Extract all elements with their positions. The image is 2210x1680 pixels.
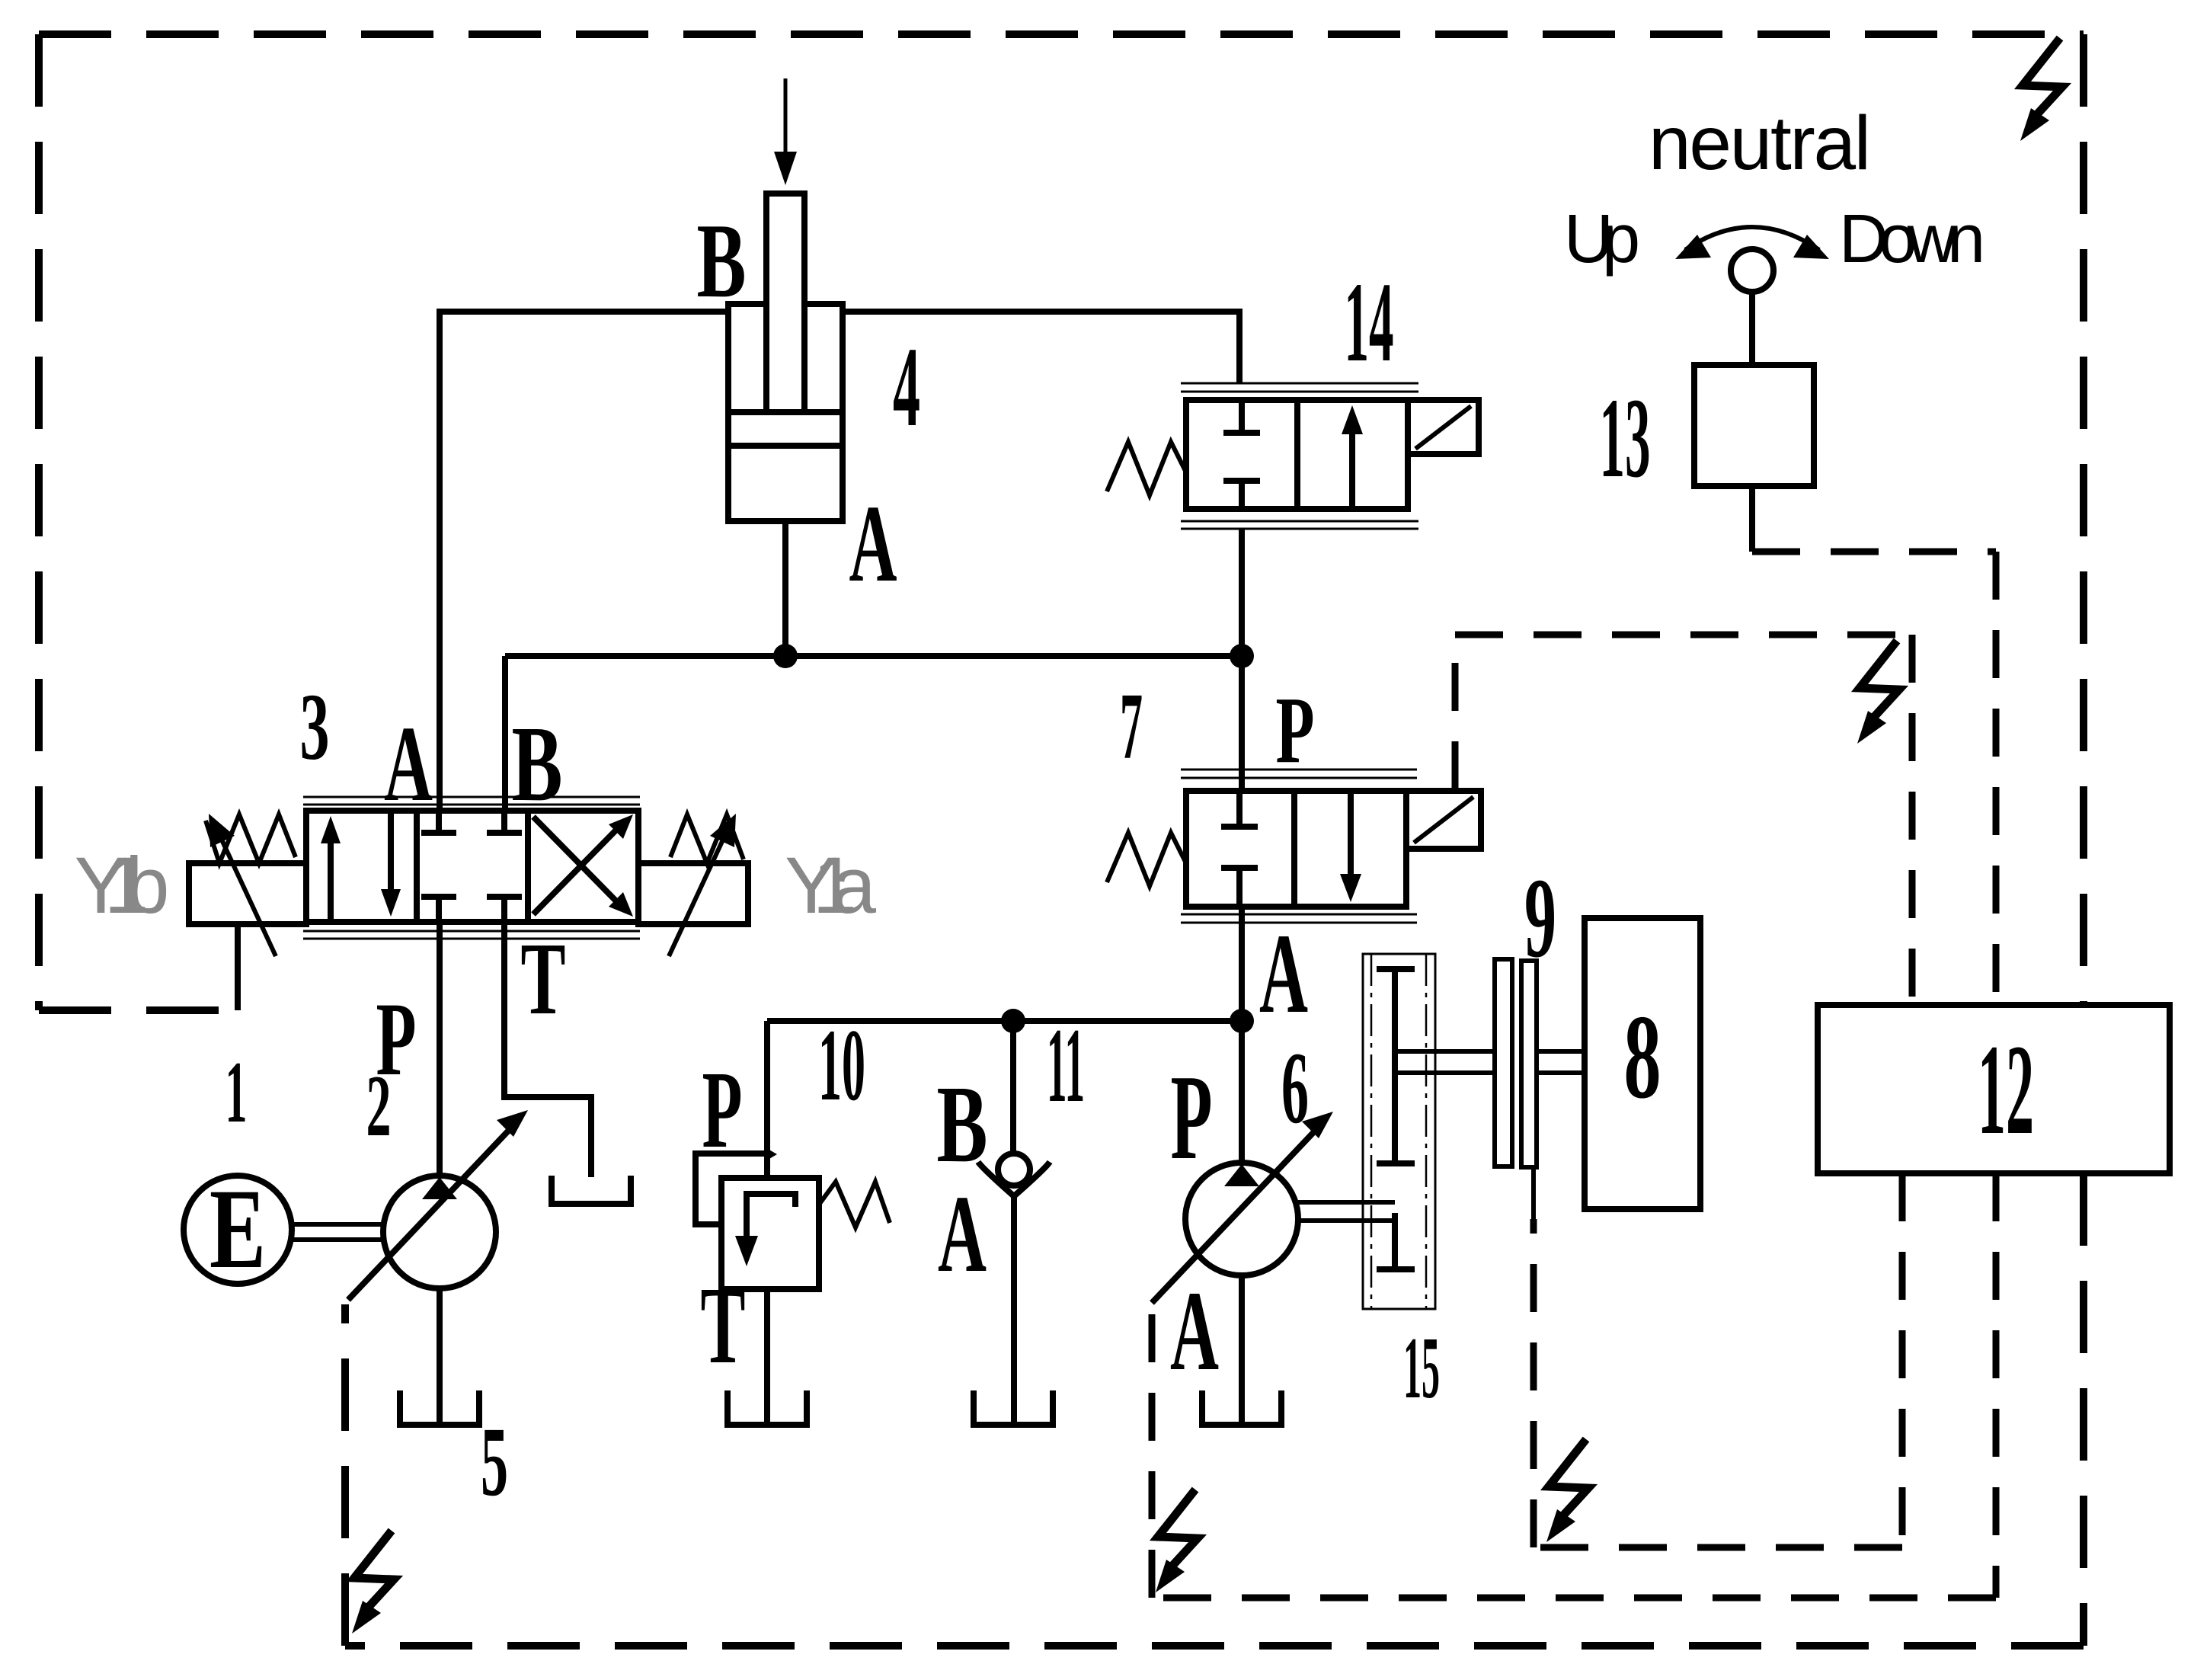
svg-text:15: 15 <box>1403 1320 1440 1416</box>
wire valve 3 port T jog to tank <box>504 925 591 1177</box>
wire outer harness right edge upper (dashed, to controller 12) <box>2080 34 2087 1005</box>
wire valve 7 port A down to pump 6 port P <box>1239 907 1245 1163</box>
wire controller 12 to clutch 9 sensor horizontal (dashed) <box>1534 1544 1902 1551</box>
pump 2 circle <box>383 1176 496 1288</box>
svg-text:A: A <box>1170 1268 1219 1394</box>
wire valve 14 bottom port to valve 7 port P <box>1239 530 1245 791</box>
cylinder 4 piston rod <box>766 194 804 412</box>
valve 3 solenoid Y1b spring <box>206 814 296 863</box>
tank under pump 6 <box>1202 1390 1281 1425</box>
svg-text:7: 7 <box>1120 674 1143 779</box>
svg-text:3: 3 <box>300 675 330 780</box>
wire bottom bus to pump 2 control (dashed) <box>345 1642 2084 1650</box>
svg-text:13: 13 <box>1600 375 1651 501</box>
pump 6 variable displacement arrow <box>1152 1112 1333 1303</box>
joystick 13 knob circle <box>1731 249 1773 292</box>
svg-text:12: 12 <box>1978 1018 2034 1161</box>
wire pump 6 below to tank <box>1239 1275 1245 1425</box>
wire inner harness top edge (dashed) <box>1455 632 1912 638</box>
wire check valve 11 port B drop <box>1010 1021 1016 1153</box>
tank 5 under pump 2 <box>400 1390 479 1425</box>
svg-text:Up: Up <box>1564 201 1640 277</box>
joystick 13 box <box>1694 365 1814 486</box>
relief valve 10 pilot frame <box>696 1154 767 1224</box>
valve 14 left position blocked ports <box>1223 400 1260 509</box>
svg-text:Y1b: Y1b <box>75 841 170 930</box>
valve 3 solenoid Y1a spring <box>670 814 744 863</box>
svg-text:B: B <box>937 1064 988 1186</box>
gearbox 15 lower gear shaft <box>1377 1213 1415 1269</box>
svg-text:T: T <box>521 922 566 1036</box>
relief valve 10 inlet arrow tick <box>764 1147 777 1162</box>
valve 3 centre position blocked ports <box>421 811 522 922</box>
valve 14 solenoid <box>1408 400 1479 454</box>
wire outer electrical harness top edge (dashed) <box>39 30 2084 38</box>
wire controller 12 to pump 6 control horizontal (dashed) <box>1152 1595 1996 1602</box>
wire lower bus relief valve 10 / check valve 11 / pump 6 <box>767 1018 1242 1024</box>
gearbox 15 centre lines (dash-dot) <box>1371 954 1426 1309</box>
valve 3 left position parallel arrows <box>321 811 401 922</box>
svg-text:P: P <box>702 1049 743 1171</box>
valve 3 top plate lines <box>303 797 640 805</box>
svg-text:11: 11 <box>1047 1006 1085 1125</box>
motor 1 circle <box>184 1176 292 1284</box>
wire cylinder 4 port B to valve 3 port A (left run) <box>440 312 728 808</box>
valve 7 right position flow path arrow down <box>1340 791 1361 902</box>
node junction pump 6 P <box>1230 1009 1254 1033</box>
node junction valve14/valve7 <box>1230 644 1254 668</box>
joystick swing arrow <box>1675 227 1829 259</box>
relief valve 10 spring <box>819 1182 890 1227</box>
wire pump 2 outlet below to tank 5 <box>437 1288 443 1425</box>
pump 6 circle <box>1185 1163 1298 1275</box>
electrical link symbol (lightning) on valve 7 solenoid harness <box>1857 641 1899 744</box>
wire outer harness right edge lower (dashed, controller 12 to bottom bus) <box>2080 1173 2087 1646</box>
clutch / flywheel 9 right plate <box>1521 961 1537 1167</box>
wire bus A1 to valve 3 port B <box>502 656 508 808</box>
svg-text:B: B <box>512 703 563 824</box>
wire relief valve 10 port P drop <box>764 1021 770 1178</box>
cylinder 4 load arrow <box>774 78 797 185</box>
tank under valve 3 port T <box>552 1176 631 1204</box>
node junction cylinder A <box>773 644 798 668</box>
wire pump 2 swashplate control riser (dashed) <box>341 1304 349 1646</box>
svg-text:A: A <box>938 1173 987 1295</box>
svg-text:E: E <box>209 1166 266 1292</box>
svg-text:neutral: neutral <box>1649 101 1871 186</box>
relief valve 10 main square <box>721 1178 819 1289</box>
wire harness to solenoid Y1b (dashed) <box>39 1006 238 1014</box>
valve 3 solenoid Y1b adjust arrow <box>209 814 276 956</box>
wire solenoid Y1b stub (solid) <box>235 924 241 1010</box>
pump 2 outlet triangle <box>422 1177 457 1199</box>
svg-text:B: B <box>697 202 747 320</box>
svg-text:A: A <box>849 483 897 605</box>
gearbox 15 upper gear shaft <box>1377 969 1415 1163</box>
svg-text:Down: Down <box>1839 201 1985 277</box>
electrical link symbol (lightning) on clutch 9 sensor line <box>1546 1439 1588 1542</box>
valve 7 top plate lines <box>1181 770 1417 778</box>
gearbox to clutch 9 shaft <box>1395 1051 1495 1073</box>
wire controller 12 to clutch 9 sensor vertical (dashed) <box>1899 1173 1906 1547</box>
wire controller 12 to pump 6 control vertical (dashed) <box>1993 1173 2000 1598</box>
cylinder 4 body <box>728 304 843 521</box>
motor-pump shaft <box>292 1224 383 1240</box>
wire joystick 13 to controller 12 vertical (dashed) <box>1993 552 2000 1005</box>
valve 3 solenoid Y1a adjust arrow <box>669 814 736 956</box>
svg-text:1: 1 <box>225 1044 248 1141</box>
node junction check valve 11 top <box>1001 1009 1025 1033</box>
wire outer harness left edge (dashed) <box>35 34 43 1010</box>
svg-text:P: P <box>1276 678 1315 783</box>
tank under check valve 11 <box>974 1390 1053 1425</box>
electrical link symbol (lightning) at outer top-right corner <box>2020 38 2062 141</box>
svg-text:4: 4 <box>893 324 920 450</box>
valve 7 solenoid <box>1406 791 1481 849</box>
wire joystick 13 to controller 12 drop (solid stub) <box>1749 486 1755 552</box>
cylinder 4 piston <box>731 412 840 446</box>
valve 7 body (2 positions) <box>1186 791 1406 907</box>
valve 7 return spring <box>1107 833 1185 886</box>
svg-text:A: A <box>384 703 433 824</box>
wire joystick 13 to controller 12 horizontal (dashed) <box>1752 549 1996 555</box>
wire node bus A1 horizontal <box>505 653 1242 659</box>
valve 7 left position blocked ports <box>1221 791 1258 907</box>
svg-text:8: 8 <box>1624 990 1661 1124</box>
tank under relief valve 10 <box>728 1390 807 1425</box>
valve 3 proportional solenoid Y1a box <box>638 863 748 924</box>
svg-text:A: A <box>1259 910 1308 1037</box>
wire clutch 9 sensor riser (dashed) <box>1530 1219 1537 1547</box>
valve 14 right position flow path arrow up <box>1342 405 1363 509</box>
controller box 12 <box>1818 1005 2170 1173</box>
clutch 9 speed sensor stub <box>1531 1167 1536 1224</box>
gearbox 15 housing <box>1363 954 1435 1309</box>
relief valve 10 internal flow path <box>735 1194 795 1266</box>
wire inner harness valve 7 solenoid riser (dashed) <box>1452 635 1459 789</box>
valve 3 body (3 positions) <box>306 811 638 922</box>
valve 14 top plate lines <box>1181 383 1418 392</box>
valve 7 bottom plate lines <box>1181 914 1417 923</box>
electrical link symbol (lightning) on pump 2 control line <box>352 1531 394 1634</box>
svg-text:P: P <box>1171 1049 1213 1185</box>
svg-text:6: 6 <box>1281 1032 1309 1145</box>
wire check valve 11 port A to tank <box>1011 1195 1017 1425</box>
wire valve 3 port P to pump 2 <box>437 925 443 1177</box>
pump 6 outlet triangle <box>1224 1164 1259 1186</box>
svg-text:10: 10 <box>818 1009 865 1122</box>
electrical link symbol (lightning) on pump 6 control line <box>1156 1490 1198 1592</box>
pump 2 variable displacement arrow <box>348 1110 528 1300</box>
svg-text:5: 5 <box>481 1407 508 1517</box>
valve 3 bottom plate lines <box>303 931 640 939</box>
valve 14 body (2 positions) <box>1186 400 1408 509</box>
svg-text:T: T <box>701 1265 746 1387</box>
clutch / flywheel 9 left plate <box>1495 959 1512 1166</box>
engine box 8 <box>1585 918 1700 1209</box>
wire cylinder 4 port B to valve 14 top port (right run) <box>843 312 1239 383</box>
pump 6 to gearbox shaft <box>1298 1202 1395 1221</box>
joystick 13 stem <box>1749 290 1755 365</box>
svg-text:Y1a: Y1a <box>785 841 877 930</box>
valve 3 proportional solenoid Y1b box <box>189 863 306 924</box>
clutch 9 to engine 8 shaft <box>1537 1051 1585 1073</box>
wire cylinder 4 port A down to node A1 <box>782 521 788 656</box>
check valve 11 seat <box>978 1162 1050 1196</box>
wire inner harness down to controller 12 (dashed) <box>1909 635 1916 1005</box>
svg-text:9: 9 <box>1524 855 1556 981</box>
svg-text:14: 14 <box>1345 259 1394 386</box>
svg-text:2: 2 <box>366 1058 392 1154</box>
check valve 11 ball <box>998 1154 1030 1186</box>
valve 14 return spring <box>1107 442 1185 495</box>
wire relief valve 10 port T to tank <box>764 1289 770 1425</box>
valve 14 bottom plate lines <box>1181 521 1418 529</box>
valve 3 right position crossed arrows <box>533 814 633 917</box>
wire pump 6 swashplate control riser (dashed) <box>1149 1306 1156 1598</box>
